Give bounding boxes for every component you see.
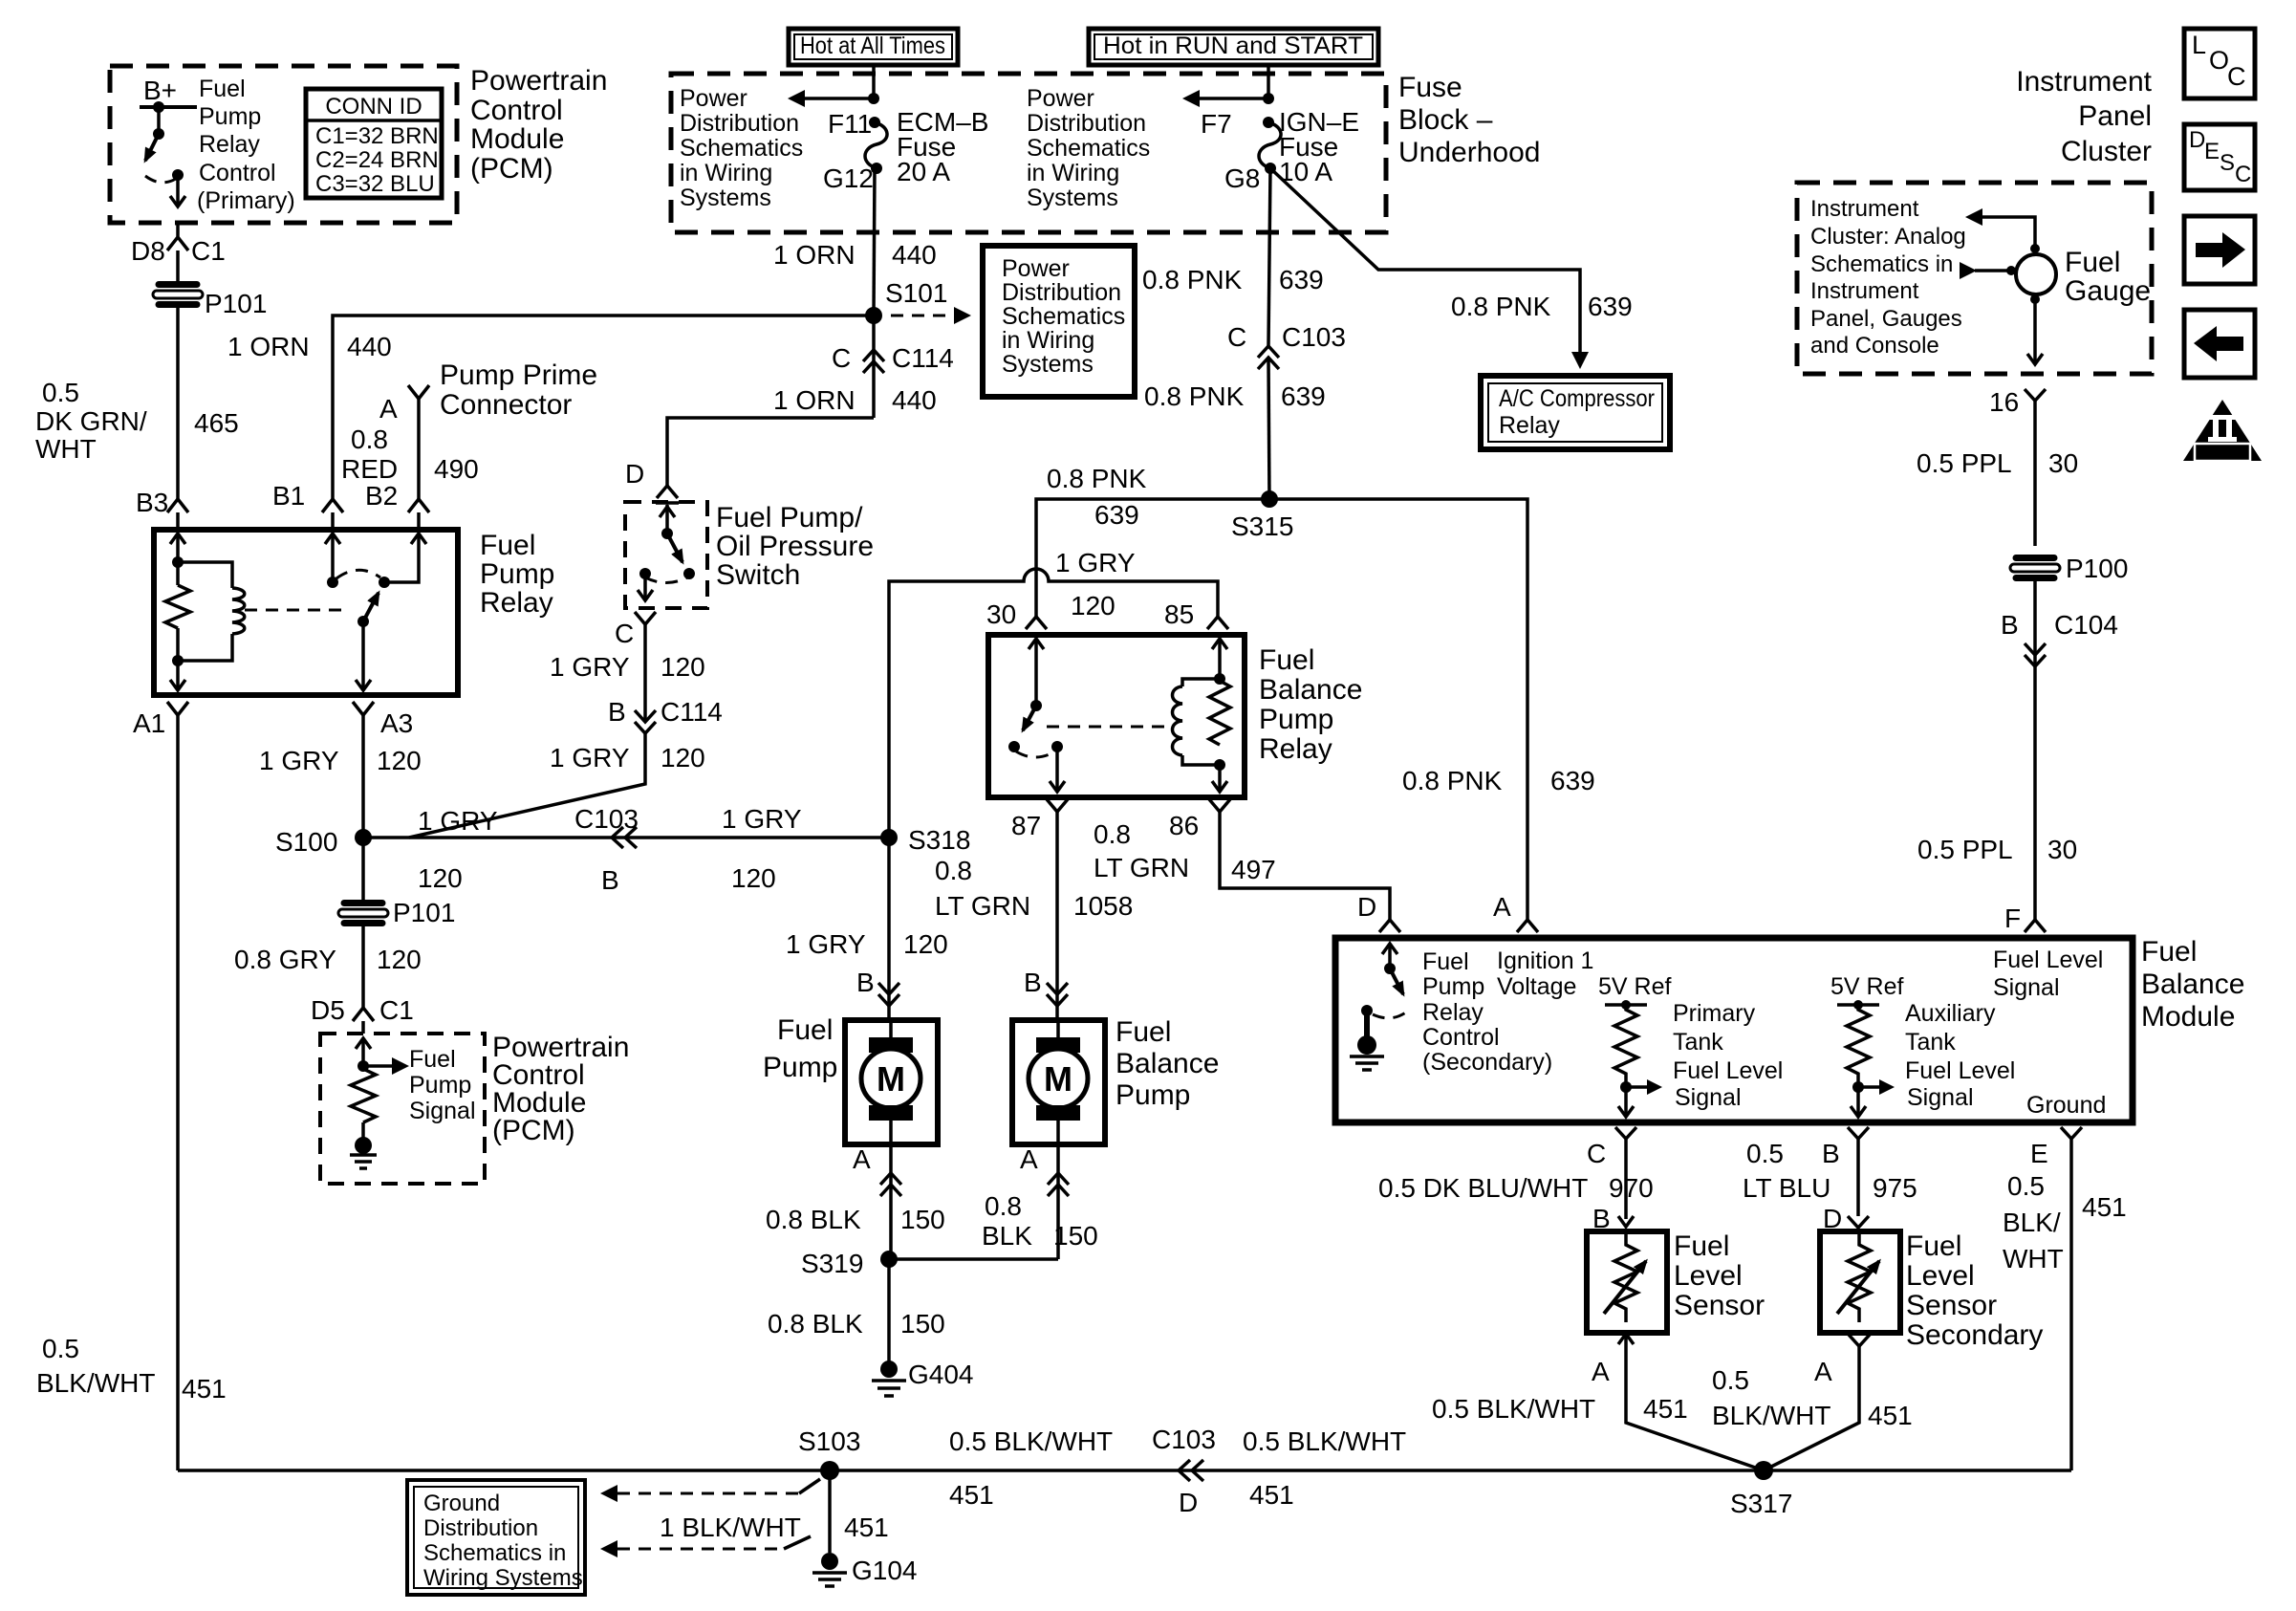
svg-text:S: S [2220, 150, 2235, 176]
svg-text:C2=24 BRN: C2=24 BRN [315, 147, 439, 173]
svg-text:B1: B1 [272, 481, 305, 511]
svg-text:490: 490 [434, 454, 479, 484]
OBD II icon triangle [2183, 400, 2262, 461]
dashed arrow 2 to ground distribution [600, 1536, 811, 1557]
svg-text:465: 465 [194, 408, 239, 438]
svg-text:Control: Control [470, 95, 563, 126]
svg-text:5V Ref: 5V Ref [1830, 973, 1903, 1000]
label Fuel Pump Signal [409, 1046, 476, 1124]
Fuel Pump Relay box [154, 530, 458, 695]
fuel pump signal input inside PCM [350, 1038, 409, 1168]
dashed arrow S101 to power distribution box [891, 307, 971, 324]
svg-text:451: 451 [1868, 1401, 1913, 1430]
svg-text:Balance: Balance [1259, 674, 1362, 706]
svg-text:451: 451 [2082, 1192, 2127, 1222]
connector C103 pin B (horizontal) [574, 804, 639, 895]
svg-text:1 GRY: 1 GRY [550, 652, 630, 682]
diagonal wire from G8 to A/C compressor relay [1270, 168, 1580, 352]
svg-text:C1: C1 [379, 995, 414, 1025]
svg-text:C103: C103 [1282, 322, 1346, 352]
svg-text:Fuel: Fuel [480, 530, 535, 561]
svg-text:P101: P101 [205, 289, 267, 318]
svg-text:Gauge: Gauge [2065, 275, 2151, 307]
svg-text:B: B [2001, 610, 2019, 640]
svg-text:C103: C103 [574, 804, 639, 834]
svg-text:F7: F7 [1201, 109, 1232, 139]
svg-text:S317: S317 [1730, 1489, 1792, 1518]
Pump Prime Connector [379, 359, 597, 499]
svg-text:Distribution: Distribution [1002, 279, 1121, 306]
svg-text:87: 87 [1011, 811, 1041, 840]
svg-text:P100: P100 [2066, 554, 2128, 583]
svg-text:Level: Level [1674, 1260, 1743, 1292]
svg-text:Hot at All Times: Hot at All Times [800, 33, 945, 59]
svg-text:1 GRY: 1 GRY [418, 806, 498, 836]
svg-text:A: A [1814, 1357, 1832, 1386]
svg-text:Pump: Pump [199, 103, 261, 130]
svg-text:B: B [1024, 968, 1042, 997]
svg-text:120: 120 [661, 743, 705, 773]
connector A3 [353, 702, 374, 715]
svg-text:Voltage: Voltage [1497, 973, 1576, 1000]
svg-text:Hot in RUN and START: Hot in RUN and START [1103, 33, 1363, 59]
svg-text:451: 451 [1249, 1480, 1294, 1510]
svg-text:BLK/WHT: BLK/WHT [1712, 1401, 1830, 1430]
svg-text:0.8 PNK: 0.8 PNK [1402, 766, 1503, 795]
auxiliary tank 5V Ref resistor [1830, 973, 1903, 1117]
svg-text:Distribution: Distribution [680, 110, 799, 137]
svg-text:Primary: Primary [1673, 1000, 1756, 1027]
svg-text:150: 150 [900, 1309, 945, 1339]
label Primary Tank Fuel Level Signal [1673, 1000, 1783, 1111]
svg-text:1 GRY: 1 GRY [722, 804, 802, 834]
svg-text:85: 85 [1164, 599, 1194, 629]
svg-text:16: 16 [1989, 387, 2019, 417]
svg-text:0.8 PNK: 0.8 PNK [1144, 381, 1245, 411]
Fuel Pump / Oil Pressure Switch dashed box [625, 502, 707, 608]
svg-text:639: 639 [1588, 292, 1633, 321]
connector B (module) and wire 0.5 LT BLU 975 [1743, 1127, 1917, 1233]
wire 0.8 PNK 639 S315 to relay2 pin 30 [1036, 499, 1269, 617]
wire B+ bar [140, 105, 197, 109]
svg-text:440: 440 [892, 240, 937, 270]
connector A (fuel balance pump) [1020, 1144, 1069, 1259]
node S100 [355, 829, 372, 846]
svg-text:639: 639 [1550, 766, 1595, 795]
svg-text:L: L [2192, 31, 2206, 59]
svg-text:C1=32 BRN: C1=32 BRN [315, 123, 439, 149]
svg-text:0.5: 0.5 [42, 378, 79, 407]
wire 0.8 LT GRN 497 from pin 86 to module pin D [1220, 812, 1390, 920]
svg-text:in Wiring: in Wiring [680, 160, 772, 186]
relay-control switch (primary) inside PCM [145, 101, 185, 207]
svg-text:(Primary): (Primary) [197, 187, 295, 214]
connector E (module) and wire 0.5 BLK/WHT 451 [2003, 1127, 2127, 1470]
label Fuel Level Sensor [1674, 1230, 1765, 1321]
svg-text:BLK/WHT: BLK/WHT [36, 1368, 155, 1398]
primary tank 5V Ref resistor [1598, 973, 1671, 1117]
svg-text:Fuel: Fuel [777, 1014, 833, 1046]
svg-text:0.5 BLK/WHT: 0.5 BLK/WHT [1432, 1394, 1595, 1424]
node S317 [1754, 1461, 1773, 1480]
svg-text:G8: G8 [1224, 163, 1260, 193]
svg-text:Distribution: Distribution [1027, 110, 1146, 137]
svg-text:Fuel: Fuel [1906, 1230, 1961, 1262]
Instrument Panel Cluster dashed box [1797, 183, 2152, 374]
node S319 [880, 1251, 898, 1268]
svg-text:Relay: Relay [1499, 412, 1560, 439]
svg-text:Control: Control [1422, 1024, 1500, 1051]
svg-text:Powertrain: Powertrain [470, 65, 607, 97]
svg-text:639: 639 [1279, 265, 1324, 294]
svg-text:B3: B3 [136, 488, 168, 517]
svg-text:S100: S100 [275, 827, 337, 857]
svg-text:Control: Control [199, 160, 276, 186]
svg-text:639: 639 [1281, 381, 1326, 411]
svg-text:B: B [601, 865, 619, 895]
svg-text:BLK: BLK [982, 1221, 1032, 1251]
connector F (module) [2025, 920, 2046, 932]
svg-text:WHT: WHT [2003, 1244, 2064, 1274]
svg-text:Cluster: Cluster [2061, 136, 2152, 167]
connector A (fuel pump) [853, 1144, 901, 1259]
svg-text:Schematics: Schematics [1002, 303, 1125, 330]
svg-text:451: 451 [949, 1480, 994, 1510]
label Ignition 1 Voltage [1497, 947, 1593, 1000]
svg-text:OBD II: OBD II [2202, 445, 2243, 460]
connector pin 87 [1047, 799, 1068, 812]
svg-text:G12: G12 [823, 163, 874, 193]
svg-text:970: 970 [1609, 1173, 1654, 1203]
svg-text:Fuel Level: Fuel Level [1673, 1057, 1783, 1084]
svg-text:E: E [2204, 139, 2220, 164]
label Power Distribution Schematics in Wiring Systems (left) [680, 85, 803, 211]
svg-text:D: D [625, 459, 644, 489]
svg-text:A: A [1020, 1144, 1038, 1174]
svg-text:(PCM): (PCM) [492, 1115, 575, 1146]
grommet P101 (second) [338, 898, 455, 927]
relay2 coil and resistor [1173, 639, 1231, 792]
svg-text:Fuse: Fuse [1398, 72, 1462, 103]
svg-text:(Secondary): (Secondary) [1422, 1049, 1552, 1076]
connector A (module) [1517, 920, 1538, 932]
svg-text:S103: S103 [798, 1426, 860, 1456]
svg-text:Oil Pressure: Oil Pressure [716, 531, 874, 562]
svg-text:C: C [1227, 322, 1246, 352]
svg-text:Power: Power [680, 85, 747, 112]
label Fuel Pump Relay Control (Primary) [197, 76, 295, 214]
svg-text:Fuel: Fuel [2065, 247, 2120, 278]
connector C (module) and wire 0.5 DK BLU/WHT 970 [1378, 1127, 1654, 1233]
relay2 switch [1008, 639, 1065, 792]
svg-text:Cluster: Analog: Cluster: Analog [1810, 224, 1966, 250]
svg-text:CONN ID: CONN ID [325, 94, 422, 120]
svg-text:Systems: Systems [1002, 351, 1094, 378]
svg-text:Pump: Pump [1116, 1079, 1190, 1111]
connector D (oil pressure switch) [657, 486, 678, 498]
Fuel Balance Pump Relay box [988, 635, 1245, 797]
junction and arrow to power distribution (left) [788, 90, 879, 107]
svg-text:Switch: Switch [716, 559, 800, 591]
svg-text:S318: S318 [908, 825, 970, 855]
svg-text:Relay: Relay [480, 587, 553, 619]
wire 1 GRY 120 [643, 624, 647, 722]
connector pin 85 [1207, 617, 1228, 629]
svg-text:Module: Module [2141, 1001, 2235, 1033]
svg-text:Ground: Ground [2026, 1092, 2106, 1119]
wire S100 down to P101 [361, 838, 365, 902]
PCM (bottom) dashed box [320, 1034, 485, 1184]
connector D8 / C1 [167, 223, 188, 250]
svg-text:Distribution: Distribution [423, 1515, 538, 1541]
connector C114 pin B [608, 697, 723, 733]
svg-text:Auxiliary: Auxiliary [1905, 1000, 1996, 1027]
svg-text:S315: S315 [1231, 512, 1293, 541]
Hot at All Times box [789, 29, 958, 65]
svg-text:0.8: 0.8 [985, 1191, 1022, 1221]
node S103 [820, 1461, 839, 1480]
svg-text:Underhood: Underhood [1398, 137, 1540, 168]
svg-text:497: 497 [1231, 855, 1276, 884]
svg-text:Signal: Signal [1675, 1084, 1742, 1111]
relay1 switch [325, 533, 426, 690]
svg-text:5V Ref: 5V Ref [1598, 973, 1671, 1000]
svg-text:Power: Power [1002, 255, 1070, 282]
connector C103 pin D (bottom) [1152, 1425, 1216, 1517]
wire 0.8 PNK 639 from fuse G8 down [1268, 168, 1270, 346]
svg-text:1 GRY: 1 GRY [550, 743, 630, 773]
svg-text:D8: D8 [131, 236, 165, 266]
svg-text:0.8: 0.8 [351, 425, 388, 454]
svg-text:120: 120 [661, 652, 705, 682]
right-arrow icon box [2184, 216, 2255, 284]
svg-text:A3: A3 [380, 708, 413, 738]
svg-text:1 GRY: 1 GRY [259, 746, 339, 775]
svg-text:120: 120 [418, 863, 463, 893]
connector A (primary sensor) [1432, 1333, 1764, 1470]
fuel gauge [2016, 247, 2151, 307]
svg-text:Signal: Signal [1993, 974, 2060, 1001]
svg-text:Panel: Panel [2078, 100, 2152, 132]
svg-text:120: 120 [903, 929, 948, 959]
wire A1 to bottom ground bus [176, 715, 180, 1470]
svg-text:120: 120 [731, 863, 776, 893]
svg-text:120: 120 [377, 746, 422, 775]
node S318 [880, 829, 898, 846]
svg-text:LT GRN: LT GRN [935, 891, 1030, 921]
svg-text:0.8 PNK: 0.8 PNK [1142, 265, 1243, 294]
connector pin 30 [1026, 617, 1047, 629]
svg-text:Fuel Pump/: Fuel Pump/ [716, 502, 863, 533]
label Fuel Balance Pump Relay [1259, 644, 1362, 765]
svg-text:30: 30 [986, 599, 1016, 629]
svg-text:Fuel: Fuel [1259, 644, 1314, 676]
svg-text:1 ORN: 1 ORN [773, 385, 856, 415]
svg-text:86: 86 [1169, 811, 1199, 840]
label Fuel Level Signal (pin F) [1993, 947, 2103, 1001]
wire 1 ORN 440 from fuse to S101 [874, 168, 875, 316]
svg-text:Pump Prime: Pump Prime [440, 359, 597, 391]
relay1 coil [178, 562, 245, 661]
wire S100 to S318 (1 GRY 120) [363, 836, 889, 839]
wire from Hot at All Times into fuse block [872, 65, 876, 98]
svg-text:Pump: Pump [763, 1052, 837, 1083]
DESC icon box [2184, 124, 2255, 190]
svg-text:A: A [853, 1144, 871, 1174]
svg-text:in Wiring: in Wiring [1002, 327, 1094, 354]
svg-text:0.5: 0.5 [1746, 1139, 1784, 1168]
svg-text:A: A [1592, 1357, 1610, 1386]
svg-text:1058: 1058 [1073, 891, 1133, 921]
svg-text:975: 975 [1873, 1173, 1917, 1203]
svg-text:LT BLU: LT BLU [1743, 1173, 1830, 1203]
svg-text:B2: B2 [365, 481, 398, 511]
fuel pump relay control (secondary) switch [1350, 944, 1407, 1070]
wire 0.8 BLK 150 S319 to G404 [887, 1259, 891, 1361]
connector A1 [167, 702, 188, 715]
svg-text:Pump: Pump [480, 558, 554, 590]
svg-text:Instrument: Instrument [1810, 278, 1919, 304]
svg-text:M: M [1044, 1059, 1072, 1099]
svg-text:0.5: 0.5 [42, 1334, 79, 1363]
svg-text:and Console: and Console [1810, 333, 1939, 359]
svg-text:Fuel: Fuel [1674, 1230, 1729, 1262]
svg-text:Fuel Level: Fuel Level [1905, 1057, 2015, 1084]
svg-text:A: A [379, 394, 398, 424]
gauge output wire pin 16 [1989, 294, 2046, 417]
svg-text:LT GRN: LT GRN [1094, 853, 1189, 882]
wire 0.8 GRY 120 [361, 923, 365, 1008]
svg-text:B: B [608, 697, 626, 727]
wire 0.8 RED 490 [341, 425, 479, 484]
svg-text:0.8 BLK: 0.8 BLK [766, 1205, 861, 1234]
fuel level sensor secondary [1820, 1231, 1900, 1333]
svg-text:Block –: Block – [1398, 104, 1493, 136]
grommet P100 [2010, 554, 2128, 583]
svg-text:Instrument: Instrument [2016, 66, 2152, 98]
svg-text:0.5 PPL: 0.5 PPL [1917, 835, 2013, 864]
svg-text:Signal: Signal [1907, 1084, 1974, 1111]
svg-text:Sensor: Sensor [1674, 1290, 1765, 1321]
svg-text:C114: C114 [661, 697, 723, 727]
svg-text:440: 440 [347, 332, 392, 361]
label Powertrain Control Module (PCM) bottom [492, 1032, 629, 1146]
svg-text:Ground: Ground [423, 1491, 500, 1516]
Power Distribution Schematics in Wiring Systems box (solid) [983, 246, 1135, 397]
connector D5 / C1 [353, 1008, 374, 1034]
svg-text:0.5 PPL: 0.5 PPL [1917, 448, 2012, 478]
svg-text:F: F [2004, 903, 2021, 933]
wire labels 0.5 BLK/WHT 451 (left) [36, 1334, 227, 1404]
svg-text:C103: C103 [1152, 1425, 1216, 1454]
svg-text:Instrument: Instrument [1810, 196, 1919, 222]
A/C Compressor Relay box [1481, 376, 1670, 449]
oil pressure switch contacts [638, 503, 695, 600]
svg-text:0.5: 0.5 [1712, 1365, 1749, 1395]
Ground Distribution Schematics in Wiring Systems box [407, 1480, 585, 1595]
label Fuel Pump Relay [480, 530, 554, 619]
svg-text:0.5: 0.5 [2007, 1171, 2045, 1201]
label Fuel Level Sensor Secondary [1906, 1230, 2043, 1351]
fuse F11 ECM-B 20 A [823, 107, 988, 193]
Fuse Block - Underhood dashed box [671, 74, 1386, 232]
label Powertrain Control Module (PCM) [470, 65, 607, 185]
gauge outgoing arrow (top) [1965, 208, 2040, 253]
svg-text:M: M [877, 1059, 905, 1099]
label Fuel Pump/ Oil Pressure Switch [716, 502, 874, 591]
svg-text:Power: Power [1027, 85, 1094, 112]
fuel pump motor [845, 1020, 938, 1144]
svg-text:Relay: Relay [199, 131, 260, 158]
gauge incoming arrow (left) [1960, 262, 2016, 279]
svg-text:Fuel: Fuel [409, 1046, 456, 1073]
svg-text:A: A [1493, 892, 1511, 922]
relay1 resistor branch (B3 to A1) [165, 533, 190, 690]
wire 1 BLK/WHT 451 S103 to G104 [828, 1470, 832, 1553]
svg-text:0.8: 0.8 [1094, 819, 1131, 849]
svg-text:B+: B+ [143, 76, 177, 105]
svg-text:Relay: Relay [1259, 733, 1332, 765]
relay2 dashed link [1047, 726, 1174, 729]
svg-text:0.8 GRY: 0.8 GRY [234, 945, 336, 974]
connector C below oil pressure switch [635, 612, 656, 624]
ground G104 [812, 1553, 918, 1586]
relay1 dashed link [245, 609, 350, 612]
wire corner to oil pressure switch D [667, 418, 874, 486]
wire 0.5 DK GRN/WHT 465 [176, 304, 180, 499]
svg-text:C104: C104 [2054, 610, 2118, 640]
ground G404 [872, 1360, 974, 1396]
svg-text:(PCM): (PCM) [470, 153, 553, 185]
wire 0.5 PPL 30 upper [2033, 401, 2037, 546]
svg-text:Schematics in: Schematics in [423, 1540, 566, 1566]
svg-text:DK GRN/: DK GRN/ [35, 406, 147, 436]
svg-text:Balance: Balance [1116, 1048, 1219, 1079]
fuel level sensor (primary) [1587, 1231, 1667, 1333]
svg-text:Fuel: Fuel [199, 76, 246, 102]
connector B3 [167, 499, 188, 530]
svg-text:0.8 BLK: 0.8 BLK [768, 1309, 863, 1339]
svg-text:Systems: Systems [680, 185, 771, 211]
svg-text:451: 451 [1643, 1394, 1688, 1424]
svg-text:Fuel: Fuel [2141, 936, 2197, 968]
wire 1 ORN 440 from S101 to relay B1 [333, 316, 874, 499]
svg-text:E: E [2030, 1139, 2048, 1168]
connector B1 [322, 499, 343, 530]
svg-text:C: C [1587, 1139, 1606, 1168]
connector C114 pin C [832, 316, 954, 418]
label Auxiliary Tank Fuel Level Signal [1905, 1000, 2015, 1111]
svg-text:20 A: 20 A [897, 157, 950, 186]
wire DK GRN 465 [176, 250, 180, 283]
svg-text:451: 451 [844, 1513, 889, 1542]
svg-text:639: 639 [1094, 500, 1139, 530]
svg-text:O: O [2209, 46, 2229, 75]
left-arrow icon box [2184, 310, 2255, 378]
svg-text:D: D [2189, 127, 2205, 153]
label Instrument Cluster: Analog Schematics ... [1810, 196, 1966, 359]
svg-text:1 BLK/WHT: 1 BLK/WHT [660, 1513, 801, 1542]
svg-text:RED: RED [341, 454, 398, 484]
svg-text:C114: C114 [892, 343, 954, 373]
svg-text:0.5 BLK/WHT: 0.5 BLK/WHT [1243, 1426, 1406, 1456]
fuel balance pump motor [1012, 1020, 1105, 1144]
wire 1 GRY 120 to S100 bus [409, 733, 645, 838]
svg-text:C: C [2235, 162, 2251, 187]
svg-text:D5: D5 [311, 995, 345, 1025]
Fuel Balance Module box [1335, 938, 2133, 1122]
wire S319 to balance pump branch [889, 1257, 1058, 1261]
